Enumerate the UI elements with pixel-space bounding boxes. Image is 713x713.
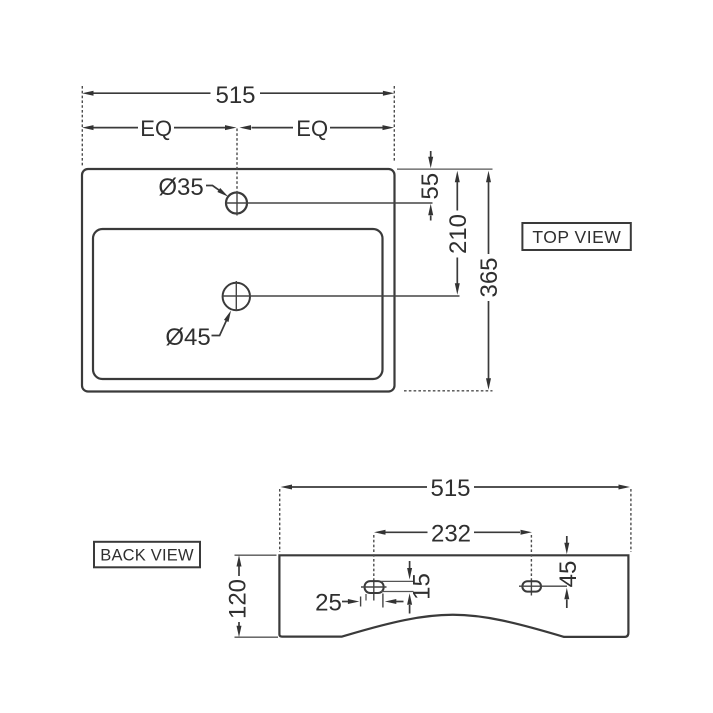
dimension 515 (top view width) (82, 82, 394, 109)
extension of basin top edge to right (397, 168, 493, 170)
hole right edge extended down (382, 594, 384, 608)
extension of basin bottom to right (404, 390, 493, 392)
right hole horizontal centerline to 45-dim (519, 585, 567, 587)
drain hole horizontal centerline extended to 210-dim (223, 295, 460, 297)
right mounting hole (522, 581, 541, 591)
svg-text:BACK VIEW: BACK VIEW (100, 547, 194, 565)
dimension 232 (hole spacing) (374, 520, 532, 547)
extension line right (back 515) (630, 489, 632, 552)
drain hole circle (Ø45) (223, 283, 250, 310)
faucet hole circle (Ø35) (226, 193, 247, 214)
svg-text:120: 120 (225, 579, 252, 619)
dimension EQ right (240, 116, 395, 141)
dimension 515 (back view width) (281, 475, 631, 502)
svg-text:TOP VIEW: TOP VIEW (532, 227, 621, 247)
svg-text:232: 232 (431, 520, 471, 547)
svg-text:Ø45: Ø45 (165, 324, 210, 351)
extension line left (515) (81, 86, 83, 166)
dimension 15 (hole height) (407, 561, 436, 614)
dimension 120 (back view height) (225, 555, 252, 637)
left mounting hole (365, 581, 384, 593)
svg-text:15: 15 (409, 573, 436, 600)
left hole horizontal centerline (361, 586, 387, 588)
dimension 210 (top edge to drain hole) (445, 171, 472, 295)
extension line left hole centerline (232) (373, 535, 375, 579)
svg-text:365: 365 (476, 257, 503, 297)
svg-text:210: 210 (445, 214, 472, 254)
tick at 25-dim left (360, 597, 362, 607)
faucet hole horizontal centerline extended to 55-dim (226, 202, 433, 204)
dimension 25 (hole offset) (315, 590, 403, 617)
svg-text:515: 515 (430, 475, 470, 502)
extension lines left (120) (235, 554, 277, 556)
drain hole vertical centerline (235, 281, 237, 311)
basin outer outline (top view) (82, 169, 395, 392)
svg-text:25: 25 (315, 590, 342, 617)
extension line right (515) (393, 86, 395, 162)
label Ø35 with leader (158, 174, 229, 201)
svg-text:EQ: EQ (296, 116, 328, 141)
hole left edge extended down (365, 594, 367, 601)
dimension 45 (top edge to hole) (555, 536, 582, 608)
svg-text:55: 55 (417, 173, 444, 200)
svg-text:EQ: EQ (140, 116, 172, 141)
svg-text:Ø35: Ø35 (158, 174, 203, 201)
dimension EQ left (82, 116, 237, 141)
dimension 365 (top view height) (476, 171, 503, 390)
vertical centerline through faucet hole (236, 129, 238, 194)
label Ø45 with leader (165, 309, 233, 351)
BACK VIEW label box (94, 542, 200, 568)
svg-text:45: 45 (555, 561, 582, 588)
TOP VIEW label box (522, 223, 630, 250)
dimension 55 (top edge to faucet hole) (417, 151, 444, 221)
extension line right hole centerline (232) (530, 535, 532, 579)
basin inner bowl outline (93, 229, 383, 379)
extension line left (back 515) (279, 489, 281, 552)
svg-text:515: 515 (215, 82, 255, 109)
hole top/bottom extension lines for 15-dim (381, 580, 414, 582)
basin back view outline with bottom arch (279, 555, 628, 637)
